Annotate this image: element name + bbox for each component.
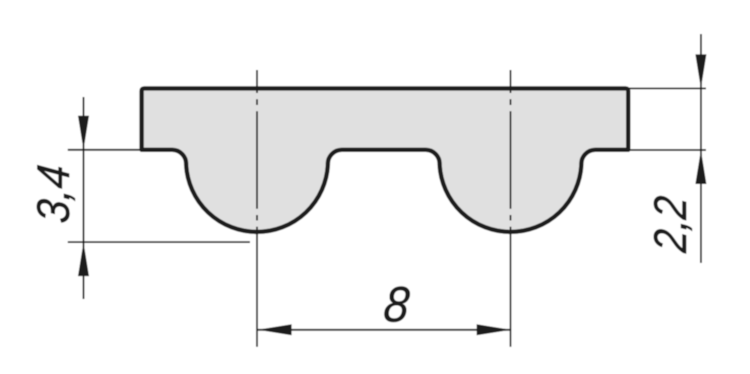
belt profile (HTD 8M cross-section) (142, 88, 629, 231)
centerline tooth 2 (510, 70, 512, 347)
arrow 8 right (477, 324, 511, 335)
svg-text:2,2: 2,2 (646, 194, 697, 255)
dimension line 8 (258, 329, 511, 331)
dimension line 3,4 (83, 97, 85, 299)
extension line mid-right (2,2 lower) (629, 149, 706, 151)
centerline tooth 1 (256, 70, 258, 347)
dimension line 2,2 (700, 34, 702, 263)
arrow 3,4 bottom (78, 242, 89, 276)
svg-text:3,4: 3,4 (28, 163, 79, 225)
extension line bottom-left (3,4 lower) (68, 241, 250, 243)
extension line top-right (2,2 upper) (629, 87, 706, 89)
arrow 2,2 top (695, 54, 706, 88)
arrow 8 left (258, 324, 292, 335)
arrow 3,4 top (78, 116, 89, 150)
arrow 2,2 bottom (695, 150, 706, 184)
extension line top-left (3,4 upper) (68, 149, 140, 151)
